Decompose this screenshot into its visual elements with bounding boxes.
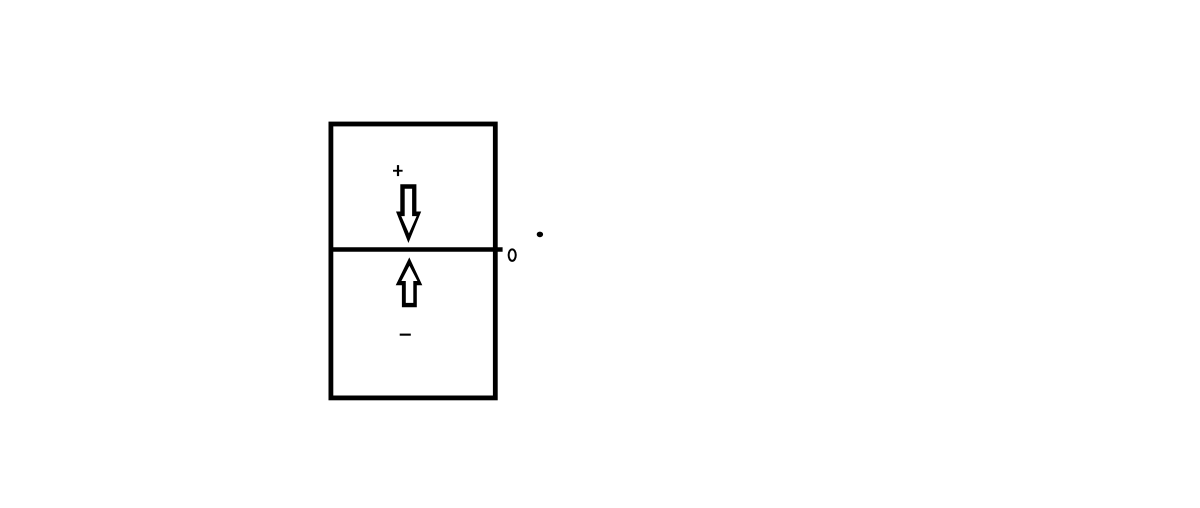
dot <box>537 232 543 238</box>
down arrow <box>396 184 421 243</box>
divider line <box>331 247 503 252</box>
up arrow <box>396 257 423 307</box>
minus label <box>400 334 411 336</box>
box outline <box>331 124 495 398</box>
plus label <box>393 165 403 176</box>
zero label <box>509 249 516 261</box>
